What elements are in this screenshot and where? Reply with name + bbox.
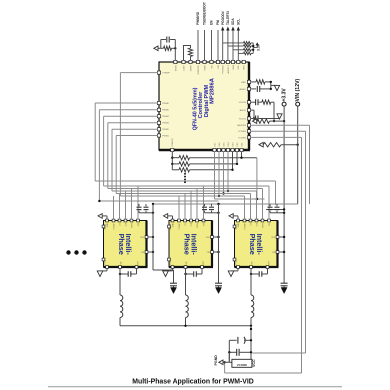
- svg-text:TALERT#: TALERT#: [226, 11, 230, 25]
- svg-text:CONFIG: CONFIG: [172, 138, 174, 147]
- svg-text:PWM1: PWM1: [162, 135, 169, 137]
- wire VIN column phase 2: [213, 204, 219, 282]
- svg-text:PWM: PWM: [197, 223, 199, 228]
- capacitor CIN2 with power ground: [215, 282, 222, 294]
- svg-text:PGND: PGND: [214, 355, 218, 366]
- svg-text:PWM5: PWM5: [162, 110, 169, 112]
- wire VOSEN sense route: [251, 131, 306, 353]
- capacitor C2 on AGND pin: [251, 86, 272, 92]
- svg-text:PWM3: PWM3: [162, 123, 169, 125]
- svg-text:VTEMP: VTEMP: [162, 73, 170, 75]
- svg-text:SW: SW: [186, 261, 188, 264]
- node VCC label: [252, 359, 256, 367]
- U1 part label text: [193, 77, 216, 130]
- transistor block U4 Intelli-Phase: [235, 221, 279, 268]
- resistor R9 to +3.3V rail: [253, 119, 286, 124]
- svg-text:SW: SW: [251, 261, 253, 264]
- transistor block U2 Intelli-Phase: [104, 221, 148, 268]
- capacitor bootstrap phase 2: [184, 268, 202, 276]
- node temperature sense arrow phase 3: [229, 214, 238, 220]
- U3 pin labels: [169, 222, 210, 264]
- svg-text:VAUXSN: VAUXSN: [237, 124, 246, 127]
- svg-text:Controller: Controller: [198, 91, 204, 119]
- svg-text:+3.3V: +3.3V: [281, 88, 287, 102]
- inductor L3: [251, 295, 254, 326]
- U2 pins: [102, 219, 148, 268]
- capacitors input decoupling phase 3: [268, 204, 286, 214]
- capacitor C4 on VDD33 pin with ground: [251, 114, 283, 122]
- ground phase 3 PGND: [228, 268, 238, 276]
- svg-text:LSBT: LSBT: [183, 65, 185, 71]
- svg-text:SCL: SCL: [236, 19, 240, 25]
- svg-text:VDRP: VDRP: [190, 65, 192, 72]
- wire output VCORE bus: [120, 325, 252, 327]
- resistor R2 between LSBT and VDRP pins: [184, 46, 193, 61]
- svg-text:3.3V: 3.3V: [257, 43, 261, 51]
- capacitor CIN1 with power ground: [170, 270, 177, 294]
- wires CS lines to phases: [215, 152, 265, 201]
- ground phase 1 PGND: [97, 268, 107, 276]
- capacitor COUT2: [228, 349, 252, 356]
- svg-text:VDD: VDD: [271, 237, 276, 239]
- svg-text:SW: SW: [120, 261, 122, 264]
- svg-text:1V8: 1V8: [191, 223, 193, 226]
- op-amp U1 MP2886A digital PWM controller: [159, 62, 250, 150]
- svg-text:AGND: AGND: [239, 88, 246, 91]
- svg-text:VDD: VDD: [206, 237, 211, 239]
- svg-text:VOSEN: VOSEN: [238, 131, 246, 133]
- wire output down: [250, 326, 252, 360]
- svg-text:VIN (12V): VIN (12V): [295, 78, 301, 101]
- svg-text:PWM6: PWM6: [162, 103, 169, 105]
- caption: [132, 378, 254, 385]
- node VIN 12V supply: [295, 78, 301, 204]
- capacitor bootstrap phase 3: [250, 268, 268, 276]
- wires PWM bus drops phase 2: [179, 186, 204, 219]
- svg-text:VTEMP: VTEMP: [179, 222, 181, 229]
- wire VAUXSN sense route: [251, 125, 310, 204]
- wires PWM bus drops phase 1: [114, 186, 139, 219]
- svg-text:ALERT#: ALERT#: [227, 64, 230, 73]
- node PGND terminal: [214, 352, 232, 365]
- svg-text:Phase: Phase: [248, 234, 257, 255]
- svg-text:TSEN: TSEN: [204, 65, 206, 71]
- wires PWM pins to left bus: [95, 73, 157, 201]
- wire VIN column phase 1: [148, 204, 174, 270]
- svg-text:PWM: PWM: [131, 223, 133, 228]
- top net name labels: [196, 2, 240, 25]
- svg-text:EN: EN: [211, 65, 213, 68]
- svg-text:PGND: PGND: [105, 258, 107, 264]
- U2 pin labels: [104, 222, 145, 264]
- U1 pin name labels: [162, 64, 246, 146]
- wire VIN column phase 3: [279, 236, 285, 253]
- wires PWM bus drops phase 3: [245, 186, 270, 219]
- svg-text:GND: GND: [238, 222, 240, 227]
- svg-text:VCC: VCC: [252, 359, 256, 367]
- capacitor C3 / resistor R8 on VDD18 pin: [251, 99, 276, 122]
- svg-text:VOSFN: VOSFN: [238, 137, 246, 139]
- capacitors input decoupling phase 1: [137, 204, 155, 214]
- svg-text:Multi-Phase Application for PW: Multi-Phase Application for PWM-VID: [132, 378, 254, 385]
- svg-text:PWMVID: PWMVID: [198, 65, 200, 74]
- load VCORE: [232, 359, 252, 367]
- resistor R7 on REF pin with analog ground: [251, 80, 280, 91]
- svg-text:VTEMP: VTEMP: [244, 222, 246, 229]
- U4 pins: [233, 219, 279, 268]
- U3 pins: [168, 219, 214, 268]
- svg-text:IMON: IMON: [175, 65, 177, 71]
- svg-text:VCORE: VCORE: [237, 363, 247, 367]
- svg-text:VDD: VDD: [140, 237, 145, 239]
- capacitors input decoupling phase 2: [202, 204, 220, 214]
- resistor R10 to VIN rail: [259, 142, 299, 147]
- wire ADDR pin: [251, 110, 256, 120]
- svg-text:PGND: PGND: [236, 258, 238, 264]
- svg-text:GND: GND: [107, 222, 109, 227]
- wire VOSFN sense route: [223, 137, 301, 373]
- svg-text:EN: EN: [210, 20, 214, 25]
- svg-text:Phase: Phase: [183, 234, 192, 255]
- wire SW phase 1: [119, 268, 121, 295]
- ellipsis dots more CS: [184, 173, 186, 183]
- svg-text:PWMVID: PWMVID: [196, 11, 200, 25]
- transistor block U3 Intelli-Phase: [169, 221, 213, 268]
- U4 pin labels: [235, 222, 276, 264]
- inductor L1: [120, 295, 123, 326]
- svg-text:QFN-40 5x5(mm): QFN-40 5x5(mm): [193, 87, 199, 130]
- svg-text:1V8: 1V8: [125, 223, 127, 226]
- wires to top labels: [198, 27, 240, 61]
- svg-text:PWM: PWM: [262, 223, 264, 228]
- wire SW phase 2: [185, 268, 187, 295]
- svg-text:PWM4: PWM4: [162, 116, 169, 118]
- node +3.3V supply: [266, 88, 287, 282]
- inductor L2: [186, 295, 189, 326]
- capacitor CIN3 with power ground: [281, 282, 288, 294]
- svg-text:VDD33: VDD33: [239, 118, 247, 120]
- svg-text:PM: PM: [218, 65, 220, 68]
- svg-text:Phase: Phase: [117, 234, 126, 255]
- svg-text:GND: GND: [172, 222, 174, 227]
- capacitor bootstrap phase 1: [119, 268, 137, 276]
- wire VIN distribution: [152, 203, 298, 205]
- node temperature sense arrow phase 2: [164, 214, 173, 220]
- svg-text:1V8: 1V8: [256, 223, 258, 226]
- pull-up resistors R3-R6 to 3.3V: [223, 42, 261, 55]
- bottom rule: [48, 386, 342, 388]
- wire horizontal PWM bus: [95, 181, 275, 205]
- svg-text:ADDR: ADDR: [240, 109, 247, 112]
- svg-text:Digital PWM: Digital PWM: [204, 85, 210, 118]
- svg-text:MP2886A: MP2886A: [209, 77, 215, 104]
- svg-text:PM: PM: [216, 20, 220, 25]
- capacitor C1 / resistor R1 network on IMON pin: [154, 37, 177, 61]
- svg-text:PWM2: PWM2: [162, 129, 169, 131]
- svg-text:TSENSE/BOOT: TSENSE/BOOT: [203, 2, 207, 25]
- ellipsis more phases: [66, 250, 86, 254]
- svg-text:SDA: SDA: [232, 65, 235, 70]
- svg-text:PGOOD: PGOOD: [223, 65, 225, 74]
- capacitor COUT1 polarized: [229, 337, 252, 362]
- svg-text:REF: REF: [241, 82, 246, 84]
- ground phase 2 PGND: [163, 268, 173, 276]
- node temperature sense arrow phase 1: [98, 214, 107, 220]
- wire SW phase 3: [250, 268, 252, 295]
- svg-text:PGOOD#: PGOOD#: [221, 11, 225, 25]
- resistors R11-R13 current-sense network: [171, 152, 257, 172]
- svg-text:VDD: VDD: [244, 65, 246, 70]
- svg-text:SDA: SDA: [231, 18, 235, 25]
- svg-text:PGND: PGND: [170, 258, 172, 264]
- U1 pins: [157, 60, 250, 151]
- svg-text:VTEMP: VTEMP: [113, 222, 115, 229]
- svg-text:VDD18: VDD18: [239, 102, 247, 104]
